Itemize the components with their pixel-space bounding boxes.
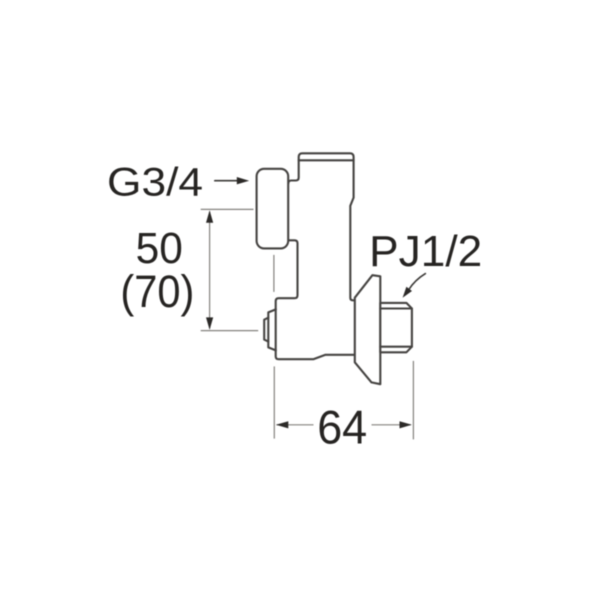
PJ1/2 threaded stub xyxy=(380,303,412,352)
dim 64 extension line left xyxy=(273,366,275,438)
valve body outline lower-left and bottom xyxy=(276,240,355,359)
centerline below cylinder xyxy=(273,255,275,292)
cap face line xyxy=(299,159,354,161)
dim 50(70) extension line top xyxy=(201,208,254,210)
left nozzle cap xyxy=(264,318,268,342)
PJ1/2 leader arrow shaft xyxy=(409,274,426,290)
thread chamfer line top xyxy=(380,307,412,309)
flange xyxy=(355,275,381,384)
dim 64 extension line right xyxy=(412,361,414,440)
svg-text:(70): (70) xyxy=(120,266,194,317)
arrowhead dim64 left xyxy=(276,421,288,428)
dim 64 dimension line left segment xyxy=(277,424,314,426)
G3/4 cylinder port xyxy=(257,169,289,249)
svg-text:64: 64 xyxy=(317,401,367,454)
dim 64 dimension line right segment xyxy=(372,424,411,426)
svg-text:PJ1/2: PJ1/2 xyxy=(369,228,482,276)
arrowhead PJ1/2 xyxy=(403,287,412,298)
dim 50(70) extension line bottom xyxy=(201,330,259,332)
arrowhead G3/4 xyxy=(237,177,249,184)
arrowhead dim50 up xyxy=(206,210,213,223)
arrowhead dim50 down xyxy=(206,317,213,330)
svg-text:G3/4: G3/4 xyxy=(107,160,203,204)
valve body outline upper (cap, right side, left step) xyxy=(288,153,355,300)
dim 50(70) dimension line xyxy=(209,212,211,329)
G3/4 leader arrow shaft xyxy=(215,180,239,182)
thread chamfer line bottom xyxy=(380,346,412,348)
arrowhead dim64 right xyxy=(400,421,412,428)
left nozzle step 1 xyxy=(268,309,276,350)
